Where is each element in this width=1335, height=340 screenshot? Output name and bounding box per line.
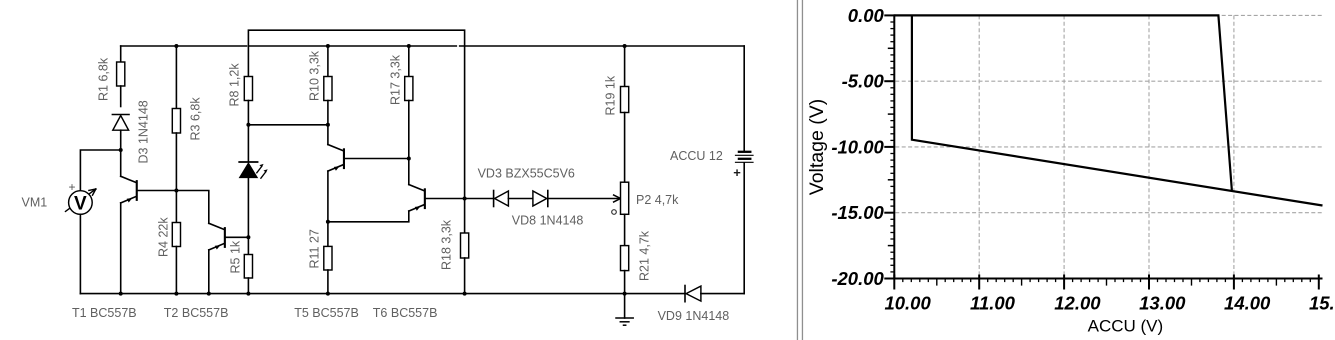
node B: junction T1 base / R3 / R4 / T2 collector branch xyxy=(174,189,178,193)
resistor R1 xyxy=(117,46,125,107)
svg-text:13.00: 13.00 xyxy=(1139,293,1186,314)
svg-text:R19 1k: R19 1k xyxy=(604,75,618,115)
svg-text:-5.00: -5.00 xyxy=(842,71,885,92)
svg-text:T1 BC557B: T1 BC557B xyxy=(72,306,137,320)
resistor R19 xyxy=(621,44,629,182)
svg-text:-10.00: -10.00 xyxy=(831,136,884,157)
chart y-axis xyxy=(893,14,895,279)
node C: junction T2 base / LED cathode / R5 top xyxy=(246,235,250,239)
svg-text:R18 3,3k: R18 3,3k xyxy=(440,219,454,270)
svg-text:R8 1,2k: R8 1,2k xyxy=(228,63,242,107)
svg-text:ACCU 12: ACCU 12 xyxy=(670,149,723,163)
transistor T1 xyxy=(121,150,138,294)
ground xyxy=(616,294,633,326)
wire: top rail V+ (left piece, y=46) xyxy=(121,45,247,47)
diode VD8 1N4148 xyxy=(533,191,620,207)
transistor T2 xyxy=(209,223,226,293)
wire: T6 base to node H xyxy=(426,198,465,200)
svg-text:R10 3,3k: R10 3,3k xyxy=(308,50,322,101)
svg-text:VD8 1N4148: VD8 1N4148 xyxy=(512,214,584,228)
svg-text:R17 3,3k: R17 3,3k xyxy=(389,54,403,105)
wire: upper rail (y=30) from R8 top to T6 base column xyxy=(248,30,464,198)
resistor R4 xyxy=(172,191,180,294)
wire: node B to T2 collector xyxy=(176,191,208,224)
svg-text:ACCU (V): ACCU (V) xyxy=(1088,317,1164,336)
node F: junction T5 base / R17 bottom / T6 collector xyxy=(407,157,411,161)
resistor R8 xyxy=(244,77,252,125)
chart x-axis ticks xyxy=(894,275,1319,290)
chart y-axis ticks xyxy=(884,15,894,278)
potentiometer P2 xyxy=(612,182,629,245)
svg-text:T2 BC557B: T2 BC557B xyxy=(164,306,229,320)
wire: node H to zener VD3 xyxy=(465,198,494,200)
svg-text:12.00: 12.00 xyxy=(1054,293,1101,314)
resistor R17 xyxy=(405,44,413,159)
svg-text:14.00: 14.00 xyxy=(1224,293,1271,314)
transistor T5 xyxy=(328,125,345,222)
chart curve: battery monitor hysteresis trace xyxy=(894,15,1322,205)
node E: junction R10 bottom / T5 collector xyxy=(326,123,330,127)
svg-text:0.00: 0.00 xyxy=(848,5,885,26)
LED (light emitting diode) xyxy=(239,125,268,238)
svg-text:11.00: 11.00 xyxy=(970,293,1016,314)
resistor R18 xyxy=(461,199,469,294)
svg-text:VD9 1N4148: VD9 1N4148 xyxy=(658,309,730,323)
svg-text:VM1: VM1 xyxy=(22,196,48,210)
node I: junction R21 / ground symbol / VD9 xyxy=(623,292,627,296)
wire: arrowhead into potentiometer P2 wiper xyxy=(614,195,621,202)
svg-text:VD3 BZX55C5V6: VD3 BZX55C5V6 xyxy=(478,167,575,181)
svg-text:R5 1k: R5 1k xyxy=(229,240,243,273)
svg-text:T5 BC557B: T5 BC557B xyxy=(294,306,359,320)
resistor R5 xyxy=(244,237,252,293)
wire: top rail V+ (right piece to battery) xyxy=(460,45,745,47)
svg-text:R4 22k: R4 22k xyxy=(157,217,171,257)
wire: emitter tie line to T6 xyxy=(328,211,409,222)
svg-text:P2 4,7k: P2 4,7k xyxy=(636,193,679,207)
resistor R10 xyxy=(324,44,332,125)
svg-text:-20.00: -20.00 xyxy=(831,268,884,289)
node G: junction T5 emitter / T6 emitter / R11 xyxy=(326,220,330,224)
svg-text:15.00: 15.00 xyxy=(1309,293,1335,314)
battery ACCU 12 xyxy=(733,46,753,294)
resistor R3 xyxy=(172,44,180,191)
chart y-axis minor ticks xyxy=(888,22,895,272)
resistor R21 xyxy=(621,246,629,294)
svg-text:R11 27: R11 27 xyxy=(308,229,322,268)
wire: T5 base to node F xyxy=(345,158,409,160)
node H: junction T6 base / upper rail / R18 / diode string xyxy=(463,197,467,201)
voltmeter VM1 xyxy=(66,180,96,214)
chart x-axis xyxy=(893,278,1322,280)
chart grid: dashed horizontal lines xyxy=(895,15,1322,212)
resistor R11 xyxy=(324,222,332,294)
svg-text:R1 6,8k: R1 6,8k xyxy=(97,57,111,101)
svg-text:-15.00: -15.00 xyxy=(831,202,884,223)
zener diode VD3 BZX55C5V6 xyxy=(494,191,533,207)
diode D3 1N4148 xyxy=(112,115,129,151)
splitter bar between panes xyxy=(797,0,803,340)
wire: node A to voltmeter xyxy=(80,150,120,191)
wire: node D to R10 bottom xyxy=(248,124,328,126)
wire: top rail V+ (middle piece between crossing gaps) xyxy=(249,45,457,47)
svg-text:R21 4,7k: R21 4,7k xyxy=(638,230,652,281)
diode VD9 1N4148 xyxy=(685,286,744,302)
svg-text:+: + xyxy=(68,180,75,194)
svg-text:V: V xyxy=(74,193,87,214)
svg-text:D3 1N4148: D3 1N4148 xyxy=(137,100,151,163)
wire: T1 base to node B xyxy=(138,190,177,192)
transistor T6 xyxy=(409,159,426,212)
chart grid: dashed vertical lines xyxy=(979,15,1234,278)
chart x-axis minor ticks xyxy=(903,279,1311,286)
svg-text:T6 BC557B: T6 BC557B xyxy=(373,306,438,320)
junction dots on ground rail xyxy=(119,292,123,296)
wire: T2 base to node C xyxy=(226,236,249,238)
wire: ground rail (bottom, y=293.6) xyxy=(80,293,685,295)
chart y-axis labels xyxy=(831,5,884,289)
chart x-axis labels xyxy=(884,293,1335,314)
svg-text:10.00: 10.00 xyxy=(884,293,931,314)
svg-text:+: + xyxy=(733,165,741,180)
node A: junction D3 / VM1 / T1 collector xyxy=(119,148,123,152)
node D: junction R8 bottom / LED anode row xyxy=(246,123,250,127)
svg-text:R3 6,8k: R3 6,8k xyxy=(189,97,203,141)
svg-text:Voltage (V): Voltage (V) xyxy=(806,99,828,195)
wire: VM1 bottom to ground rail xyxy=(79,214,81,293)
